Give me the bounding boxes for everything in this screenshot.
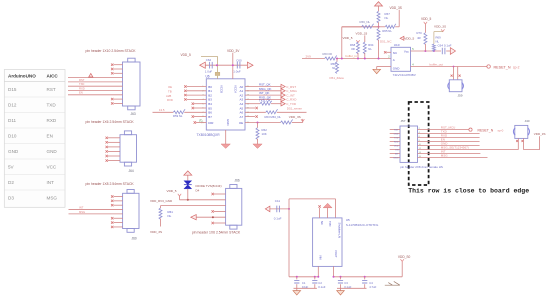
- U5 top pin with power arrow: [327, 208, 329, 218]
- connector J60 body: [123, 193, 139, 228]
- svg-text:10K: 10K: [262, 132, 267, 136]
- table ArduinoUNO-AICC pinout: [4, 70, 65, 208]
- net flag VDD_5 at U10: [400, 36, 404, 40]
- capacitor C64: [442, 48, 445, 55]
- junction C11 node: [288, 208, 290, 210]
- svg-text:B7: B7: [208, 115, 212, 119]
- wire J63 pin 3 stub: [114, 72, 123, 74]
- wire U6 pin A0: [245, 86, 282, 88]
- svg-text:VDD_3S: VDD_3S: [434, 24, 446, 28]
- svg-text:VOUT: VOUT: [334, 250, 338, 258]
- wire J64 pin 1 stub: [108, 137, 120, 139]
- wire J57 right pin 1: [418, 129, 469, 131]
- svg-text:VDD_5: VDD_5: [421, 17, 432, 21]
- no-connect mark J64 pin 5: [106, 155, 108, 157]
- svg-text:D15: D15: [8, 87, 17, 92]
- wire diode bottom: [187, 189, 189, 200]
- svg-text:GND: GND: [8, 149, 19, 154]
- svg-text:J64: J64: [129, 169, 134, 173]
- wire U6 pin A1: [245, 90, 282, 92]
- no-connect mark J64 pin 3: [106, 146, 108, 148]
- no-connect mark J63 pin 3: [111, 72, 113, 74]
- svg-text:S-1170B33UC-OTDTFG: S-1170B33UC-OTDTFG: [346, 223, 379, 227]
- resistor R61: [159, 208, 162, 219]
- svg-text:INT: INT: [79, 206, 84, 210]
- wire U6 OE with series resistor: [245, 122, 281, 124]
- svg-text:Vcc: Vcc: [404, 50, 410, 54]
- resistor R58 pulldown: [336, 59, 338, 62]
- junctions VIN rail: [296, 276, 298, 278]
- wire J63 pin 4 to Arduino net: [68, 77, 123, 79]
- junction J66 pin5 wire: [212, 216, 214, 218]
- svg-text:buffer_in: buffer_in: [346, 54, 358, 58]
- svg-text:buffer_out: buffer_out: [430, 63, 444, 67]
- wire J57 left pin 3: [390, 137, 400, 139]
- svg-text:MSG: MSG: [79, 210, 85, 214]
- wire J60 pin 6 stub: [114, 217, 123, 219]
- wire J60 pin 2 stub: [114, 200, 123, 202]
- net flag C_RXD: [281, 97, 285, 101]
- svg-text:1.0uF: 1.0uF: [205, 70, 213, 74]
- svg-text:NL: NL: [168, 214, 172, 218]
- VOUT rail: [334, 276, 403, 278]
- wire J63 pin 8 to Arduino net: [68, 94, 123, 96]
- svg-text:DIODE TVS(B.04F): DIODE TVS(B.04F): [196, 184, 222, 188]
- wire junction to left rail: [342, 26, 379, 28]
- net flag X on B0: [184, 85, 186, 87]
- svg-text:Shutdown_N: Shutdown_N: [337, 223, 341, 238]
- svg-text:VDD: VDD: [394, 146, 399, 148]
- connector J64 body: [120, 135, 137, 163]
- svg-text:D12: D12: [8, 103, 17, 108]
- svg-text:4.7uF: 4.7uF: [369, 285, 376, 289]
- wire C11 node up and over to shutdown pin: [288, 199, 290, 209]
- resistor R69: [432, 44, 435, 52]
- wire U10 NC stub: [386, 51, 391, 53]
- wire J66 pin 6 stub: [214, 222, 226, 224]
- junction diode-wire: [187, 199, 189, 201]
- wire J64 pin 2 stub: [108, 141, 120, 143]
- svg-text:J59: J59: [458, 93, 463, 97]
- svg-text:This row is close to board edg: This row is close to board edge: [408, 188, 529, 195]
- wire J63 pin 5 to Arduino net: [68, 81, 123, 83]
- svg-text:MSG: MSG: [47, 196, 58, 201]
- net flag VDD_3S chevron: [301, 119, 304, 121]
- resistor R67: [377, 11, 380, 23]
- svg-text:74LVC1G07DBV: 74LVC1G07DBV: [393, 73, 417, 77]
- wire VDD_3V to VCCA: [232, 53, 234, 79]
- net flag arrow left (VDD_5 rail): [200, 62, 206, 68]
- svg-text:D2: D2: [8, 180, 14, 185]
- wire J64 pin 4 stub: [108, 150, 120, 152]
- wire VDD_3S to R69: [442, 31, 444, 33]
- wire J64 pin 5 stub: [108, 155, 120, 157]
- wire U6 pin A3: [245, 98, 282, 100]
- no-connect mark J64 pin 2: [106, 141, 108, 143]
- svg-text:TXD: TXD: [47, 103, 57, 108]
- wire J57 right pin 2: [418, 133, 480, 135]
- svg-text:sp-0: sp-0: [498, 128, 504, 132]
- svg-text:GND: GND: [394, 134, 399, 136]
- wire J63 pin 2 stub: [114, 68, 123, 70]
- wire J63 pin 6 to Arduino net: [68, 85, 123, 87]
- wire J66 pin 5: [196, 216, 225, 218]
- wire U6 pin B6 with series resistor R59: [153, 111, 174, 113]
- svg-text:RXD: RXD: [167, 98, 173, 102]
- net flag X on B3: [184, 98, 186, 100]
- net flag chevron R68: [356, 40, 359, 42]
- resistor R65 vertical to buffer input: [378, 27, 380, 29]
- wire J57 right pin 4: [418, 141, 480, 143]
- svg-text:EN: EN: [47, 134, 53, 139]
- ground symbol below U6: [221, 144, 230, 148]
- svg-text:MSG: MSG: [394, 158, 399, 160]
- IC U6 body: [206, 79, 245, 130]
- svg-text:GND: GND: [393, 67, 401, 71]
- no-connect mark J60 pin 7: [111, 221, 113, 223]
- svg-text:J63: J63: [131, 112, 136, 116]
- wire VDD_5 to VCCB (tan): [201, 55, 218, 57]
- svg-text:R59 NL: R59 NL: [173, 114, 183, 118]
- jumper J59 body: [449, 80, 462, 92]
- wire J59 pin2 drop: [457, 67, 459, 80]
- svg-text:RXD: RXD: [394, 142, 399, 144]
- no-connect mark J64 pin 6: [106, 159, 108, 161]
- wire J66 pin 1 stub: [214, 193, 226, 195]
- svg-text:4R: 4R: [417, 36, 421, 40]
- junction OE/R62: [257, 122, 259, 124]
- svg-text:NL: NL: [332, 66, 336, 70]
- svg-text:VDD_RV3_GND: VDD_RV3_GND: [150, 199, 173, 203]
- svg-text:0.1uF: 0.1uF: [274, 216, 282, 220]
- svg-text:RST: RST: [394, 130, 399, 132]
- svg-text:J60: J60: [132, 236, 137, 240]
- wire J60 pin 5 to MSG net: [69, 213, 123, 215]
- svg-text:1.0uF: 1.0uF: [233, 70, 241, 74]
- wire to C11: [270, 208, 289, 210]
- junctions on buffer input rail: [336, 58, 338, 60]
- U5 top pin NC with no-connect X: [319, 208, 321, 218]
- no-connect mark J60 pin 6: [111, 217, 113, 219]
- no-connect mark J63 pin 1: [111, 64, 113, 66]
- no-connect mark J63 pin 10: [111, 102, 113, 104]
- svg-text:VDD_3S: VDD_3S: [150, 230, 162, 234]
- svg-text:VDD_5: VDD_5: [167, 189, 177, 193]
- svg-text:RXD: RXD: [79, 86, 85, 90]
- svg-text:pin header 1X10 2.54mm STACK: pin header 1X10 2.54mm STACK: [86, 49, 137, 53]
- svg-text:J66: J66: [235, 179, 240, 183]
- junction R67/R66/R65: [378, 26, 380, 28]
- capacitor C2: [314, 277, 316, 280]
- svg-text:EN: EN: [395, 150, 398, 152]
- junction Vcc/R70: [424, 50, 426, 52]
- svg-text:VDD_5: VDD_5: [404, 37, 414, 41]
- wire U6 DIR stub: [196, 122, 206, 124]
- wire buffer input rail: [302, 58, 325, 60]
- wire J60 pin 3 stub: [114, 204, 123, 206]
- net flag C_RST: [281, 84, 285, 88]
- svg-text:2V9: 2V9: [306, 54, 312, 58]
- wire U5 VIN down: [317, 266, 319, 276]
- svg-text:D51_#dew: D51_#dew: [330, 76, 345, 80]
- svg-text:pin header 1X6 2.54mm STACK: pin header 1X6 2.54mm STACK: [192, 231, 241, 235]
- svg-text:R65 NL: R65 NL: [382, 29, 392, 33]
- wire J57 left pin 4: [390, 141, 400, 143]
- net flag X on B1: [184, 90, 186, 92]
- svg-text:AICC: AICC: [47, 73, 59, 78]
- wire J64 pin 3 stub: [108, 146, 120, 148]
- net flag arrow right (Vcc): [450, 48, 455, 55]
- svg-text:VDD_3S: VDD_3S: [289, 115, 301, 119]
- svg-text:NL: NL: [385, 16, 389, 20]
- svg-text:U10: U10: [394, 43, 400, 47]
- svg-text:VDD_33: VDD_33: [356, 31, 368, 35]
- wire U10 Vcc rail: [411, 50, 442, 52]
- svg-text:NL: NL: [436, 40, 440, 44]
- svg-text:RXD: RXD: [47, 118, 57, 123]
- svg-text:0.1uF: 0.1uF: [318, 285, 325, 289]
- wire J60 pin 4 to MSG net: [69, 209, 123, 211]
- wire VDD_5 to J66 pin 2: [179, 196, 181, 200]
- svg-text:C11: C11: [275, 199, 281, 203]
- no-connect marks J59 pins: [451, 75, 453, 77]
- svg-text:VDD_5: VDD_5: [181, 53, 192, 57]
- net flag chevron VDD_5: [424, 22, 427, 24]
- IC U10 body: [391, 47, 411, 71]
- diode D4 TVS bidirectional: [184, 181, 192, 189]
- no-connect mark J60 pin 8: [111, 226, 113, 228]
- svg-text:(T): (T): [199, 119, 202, 123]
- wire U6 pin A7 stub: [245, 116, 255, 118]
- wire J59 pin1 drop: [453, 67, 455, 80]
- dashed box: row close to board edge: [409, 102, 429, 185]
- input caps ground wire: [294, 287, 317, 289]
- connector J66 body: [226, 188, 242, 225]
- power symbol top (triangle up): [375, 2, 383, 6]
- svg-text:NL: NL: [368, 47, 372, 51]
- wire power to R67: [378, 6, 380, 11]
- wire decoupling rail: [205, 64, 247, 66]
- wire U6 pin B4 stub: [194, 103, 206, 105]
- net flag arrow (up) on J63 wires: [89, 73, 93, 77]
- svg-text:C_TXD: C_TXD: [286, 102, 297, 106]
- resistor R70 pullup: [424, 24, 426, 33]
- svg-text:VDD_5: VDD_5: [343, 36, 353, 40]
- no-connect mark J66 pin 1: [212, 193, 214, 195]
- wire J57 left pin 2: [390, 133, 400, 135]
- arrow symbol (board edge pointer): [385, 281, 400, 285]
- svg-text:U5: U5: [346, 218, 350, 222]
- svg-text:TXD: TXD: [394, 138, 399, 140]
- no-connect mark J64 pin 1: [106, 137, 108, 139]
- wire U10 output to RESET_N: [411, 66, 488, 68]
- resistor R64: [363, 42, 366, 54]
- ground symbol input caps: [293, 291, 301, 295]
- resistor R60 inline: [325, 56, 337, 61]
- svg-text:MSG: MSG: [441, 153, 449, 157]
- svg-text:TPD: TPD: [328, 221, 332, 226]
- svg-text:DIR: DIR: [208, 121, 214, 125]
- wire J57 right pin 5: [418, 145, 480, 147]
- wire J60 pin 1 stub: [114, 196, 123, 198]
- wire C11 node down to VIN rail: [288, 209, 290, 277]
- wire J57 left pin 6: [390, 149, 400, 151]
- svg-text:C62: C62: [206, 58, 212, 62]
- net flag arrow right (VDD_3V rail): [247, 62, 253, 68]
- resistor R63 horizontal: [379, 26, 386, 28]
- wire J57 right pin 3: [418, 137, 480, 139]
- svg-text:RESET_N: RESET_N: [478, 128, 494, 132]
- wire J64 pin 6 stub: [108, 160, 120, 162]
- wire U6 pin A5 stub: [245, 107, 255, 109]
- wire J40 pin1 drop to MSG wire: [517, 138, 519, 149]
- no-connect mark J64 pin 4: [106, 150, 108, 152]
- svg-text:RST: RST: [79, 78, 85, 82]
- svg-text:VCCA: VCCA: [234, 85, 238, 93]
- wire U6 pin A4 with series resistor: [245, 103, 260, 105]
- svg-text:D4: D4: [196, 188, 200, 192]
- no-connect mark J60 pin 1: [111, 195, 113, 197]
- svg-text:pin header 1X8 2.54mm STACK: pin header 1X8 2.54mm STACK: [86, 182, 135, 186]
- wire U6 pin B7 stub: [194, 116, 206, 118]
- wire J60 pin 7 stub: [114, 222, 123, 224]
- svg-text:RST: RST: [47, 87, 56, 92]
- wire J66 pin 4 stub: [214, 210, 226, 212]
- wire J57 left pin 7: [390, 153, 400, 155]
- power flag above diode D4: [184, 171, 192, 175]
- no-connect mark J63 pin 9: [111, 98, 113, 100]
- svg-text:D51_NC: D51_NC: [380, 39, 392, 43]
- net flag circle RESET_N: [487, 65, 490, 68]
- wire U6 pin B0: [187, 86, 207, 88]
- wire J63 pin 10 stub: [114, 102, 123, 104]
- svg-text:VDD_3S: VDD_3S: [390, 6, 402, 10]
- svg-text:VIN: VIN: [318, 255, 322, 260]
- svg-text:C60: C60: [236, 58, 242, 62]
- svg-text:VDD_S0: VDD_S0: [398, 255, 411, 259]
- svg-text:5V: 5V: [8, 165, 15, 170]
- svg-text:U6: U6: [206, 75, 210, 79]
- wire VDD rail drop left: [341, 27, 343, 59]
- svg-text:J57: J57: [401, 119, 406, 123]
- svg-text:D3: D3: [8, 196, 14, 201]
- no-connect mark J60 pin 2: [111, 200, 113, 202]
- svg-text:A: A: [393, 58, 395, 62]
- svg-text:OE: OE: [239, 121, 243, 125]
- svg-text:TXD: TXD: [79, 82, 84, 86]
- wire U6 pin A2: [245, 94, 282, 96]
- connector J57 body: [400, 126, 418, 162]
- resistor R68: [357, 41, 359, 43]
- regulator U5 body: [313, 218, 342, 267]
- svg-text:0R: 0R: [351, 47, 355, 51]
- wire VDD_33 to R64: [364, 35, 366, 42]
- wire VDD_3S drop to J40: [539, 136, 541, 149]
- svg-text:EN: EN: [79, 91, 83, 95]
- no-connect mark J66 pin 6: [212, 222, 214, 224]
- net flag chevron VDD_S0: [401, 259, 404, 261]
- svg-text:R66_NL: R66_NL: [360, 20, 371, 24]
- wire U6 pin A6 with series resistor: [245, 111, 266, 113]
- no-connect mark J66 pin 4: [212, 210, 214, 212]
- pin pad VCCB: [215, 72, 220, 75]
- wire U5 VOUT down: [333, 266, 335, 276]
- wire U6 pin B5 stub: [194, 107, 206, 109]
- junction output/J59: [453, 66, 455, 68]
- connector J63 body: [123, 62, 141, 106]
- wire J57 left pin 5: [390, 145, 400, 147]
- net flag C_MSG: [281, 89, 285, 93]
- svg-text:RESET_N: RESET_N: [494, 66, 511, 70]
- net flag C_TXD: [281, 102, 285, 106]
- net flag arrow on J66 pin 5 wire: [191, 215, 196, 220]
- svg-text:D10: D10: [8, 134, 17, 139]
- wire J57 right pin 8: [418, 157, 488, 159]
- wire J63 pin 9 stub: [114, 98, 123, 100]
- svg-text:R63 M63_NL: R63 M63_NL: [265, 115, 282, 119]
- net flag C_INT: [281, 93, 285, 97]
- svg-text:sp-2: sp-2: [513, 66, 520, 70]
- svg-text:R70: R70: [417, 31, 423, 35]
- wire J57 left pin 8: [390, 157, 400, 159]
- wire J40 pin2 drop: [523, 138, 525, 149]
- wire VDD_3S drop: [398, 10, 400, 27]
- svg-text:13.5: 13.5: [159, 108, 165, 112]
- capacitor C62: [210, 62, 213, 69]
- capacitor C1: [296, 277, 298, 280]
- wire J57 right pin 6: [418, 149, 519, 151]
- wire J57 left pin 1: [390, 129, 400, 131]
- svg-text:VDD_3V: VDD_3V: [227, 49, 240, 53]
- svg-text:VCCB: VCCB: [220, 85, 224, 93]
- capacitor C3: [340, 277, 342, 280]
- capacitor C11 plates: [277, 206, 280, 213]
- junction Vcc/R69: [433, 50, 435, 52]
- wire J63 pin 7 to Arduino net: [68, 90, 123, 92]
- wire U10 GND: [377, 66, 391, 68]
- wire VDD_RV3_GND to J66 pin 3: [161, 205, 226, 207]
- svg-text:J40: J40: [525, 119, 530, 123]
- wire diode top: [187, 175, 189, 181]
- wire U6 pin B3: [187, 98, 207, 100]
- resistor R62 pulldown: [257, 123, 259, 128]
- wire J60 pin 8 stub: [114, 226, 123, 228]
- svg-text:TXD_QK: TXD_QK: [259, 99, 271, 103]
- net flag chevron VDD_3S: [441, 29, 444, 31]
- jumper J40 body: [515, 125, 528, 138]
- ground symbol output caps: [337, 291, 345, 295]
- svg-text:pin header 1X6 2.54mm STACK: pin header 1X6 2.54mm STACK: [86, 120, 135, 124]
- svg-text:R60 0R: R60 0R: [323, 52, 332, 56]
- svg-text:VCC: VCC: [47, 165, 57, 170]
- svg-text:A7: A7: [240, 115, 244, 119]
- wire J57 right pin 7: [418, 153, 481, 155]
- VIN rail: [289, 276, 318, 278]
- capacitor C4: [364, 277, 366, 280]
- svg-text:INT: INT: [47, 180, 55, 185]
- junctions VOUT rail: [333, 276, 335, 278]
- svg-text:GND: GND: [226, 119, 230, 125]
- ground symbol below R62: [253, 144, 262, 148]
- U6 GND pin wire: [225, 130, 227, 144]
- net flag VDD_5: [178, 194, 181, 196]
- svg-text:D51_sense: D51_sense: [287, 107, 303, 111]
- svg-text:VDD_3S: VDD_3S: [534, 132, 546, 136]
- net flag X on B2: [184, 94, 186, 96]
- svg-text:C64 0.1uF: C64 0.1uF: [438, 44, 452, 48]
- svg-text:D11: D11: [8, 118, 17, 123]
- wire U6 pin B2: [187, 94, 207, 96]
